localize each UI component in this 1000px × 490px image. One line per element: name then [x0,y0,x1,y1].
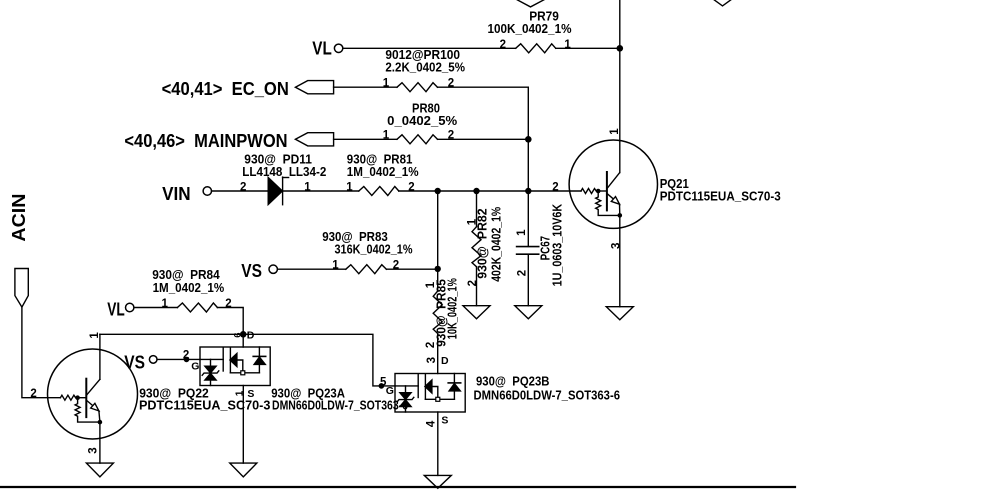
wire node to PC67 [527,191,529,246]
svg-text:1: 1 [564,39,571,51]
wire VIN terminal to diode [212,190,269,192]
svg-text:VL: VL [107,299,125,320]
wire PR83 to node [386,268,437,270]
wire PR80 to node [438,138,529,140]
junction node dots [75,45,623,424]
svg-text:2: 2 [552,181,558,193]
resistor PR81 [359,187,399,196]
net connector arrow EC_ON [295,81,333,94]
svg-text:1: 1 [332,260,339,272]
svg-text:4: 4 [425,420,437,427]
svg-text:402K_0402_1%: 402K_0402_1% [489,206,504,281]
terminal VIN [203,187,211,195]
wire PQ21 emitter to ground [619,215,621,306]
sheet border line [0,486,795,488]
svg-text:<40,46> MAINPWON: <40,46> MAINPWON [124,130,287,151]
wire PR79 to node [556,47,620,49]
resistor PR80 [397,135,438,144]
connector ACIN [15,269,28,308]
pin dot PQ23A gate [184,357,190,363]
ground PC67 [515,306,542,319]
svg-text:1: 1 [304,181,311,193]
terminal VS bottom [149,356,157,364]
svg-text:VL: VL [312,37,332,58]
svg-text:D: D [247,330,255,342]
power symbol top-right (cut off diamond) [713,0,732,6]
svg-text:1: 1 [383,78,390,90]
svg-text:DMN66D0LDW-7_SOT363-6: DMN66D0LDW-7_SOT363-6 [272,397,408,412]
wire PR82 to ground [476,267,478,306]
svg-text:2: 2 [240,181,246,193]
mosfet PQ23B [395,374,465,413]
mosfet PQ23A [200,347,270,386]
svg-text:10K_0402_1%: 10K_0402_1% [444,278,459,339]
svg-text:6: 6 [232,332,243,337]
wire diode to PR81 [283,190,359,192]
net connector arrow MAINPWON [295,133,333,146]
svg-text:1U_0603_10V6K: 1U_0603_10V6K [550,203,565,286]
svg-text:3: 3 [610,243,622,249]
node VL/PQ23A drain [240,331,247,338]
svg-text:S: S [441,414,448,426]
pin dot PQ23B gate [379,383,385,389]
node VIN/PR85 [435,188,441,194]
wire VL to PR79 [343,47,516,49]
svg-text:2: 2 [448,78,454,90]
svg-text:2: 2 [183,349,189,361]
node VIN/PR82 [473,188,479,194]
svg-text:DMN66D0LDW-7_SOT363-6: DMN66D0LDW-7_SOT363-6 [474,387,621,402]
svg-text:<40,41> EC_ON: <40,41> EC_ON [162,78,289,99]
svg-text:S: S [247,388,254,400]
svg-text:2: 2 [467,280,479,286]
svg-text:1: 1 [235,390,246,396]
svg-text:G: G [386,385,394,397]
svg-text:316K_0402_1%: 316K_0402_1% [335,242,413,257]
terminal circles [126,44,343,363]
wire VL terminal to PR84 [134,307,178,309]
svg-text:2: 2 [30,388,36,400]
wire VS terminal to PR83 [277,268,345,270]
ground PQ22 [86,463,113,477]
wire PQ23B source to ground [437,412,439,475]
svg-text:1: 1 [346,181,353,193]
terminal VS top [269,265,277,273]
wire node to PR82 [476,191,478,227]
resistor PR85 [433,291,442,334]
resistor PR100 [397,83,438,92]
transistor PQ22 [48,349,138,439]
svg-text:2: 2 [225,298,231,310]
svg-text:2: 2 [408,181,414,193]
wire PQ22 emitter to ground [99,422,101,463]
wire VS terminal to PQ23A gate [157,358,200,360]
wire PC67 to ground [527,254,529,306]
node PQ21 base [596,189,601,194]
resistor PR82 [472,227,481,267]
svg-text:VS: VS [241,260,262,281]
wire PR100 to corner [438,87,529,191]
svg-text:ACIN: ACIN [8,194,29,242]
wire PR84 to PQ23A drain [217,308,243,348]
node EC_ON/MAINPWON [525,136,532,143]
ground PQ23B [424,475,451,488]
terminal VL top [334,44,342,52]
transistor PQ21 [569,140,657,228]
wire EC_ON to PR100 [334,86,397,88]
svg-text:2: 2 [393,260,399,272]
svg-text:3: 3 [88,447,100,453]
resistor PR83 [346,265,387,274]
node VIN/PC67 [525,188,531,194]
svg-text:930@ PR82: 930@ PR82 [475,208,490,278]
svg-text:VIN: VIN [162,183,191,204]
svg-text:2: 2 [500,39,506,51]
wire PQ22 collector up [99,334,101,379]
node VS/PR85 [435,266,441,272]
svg-text:930@ PQ23B: 930@ PQ23B [476,373,550,388]
svg-text:2: 2 [448,130,454,142]
node PQ22 base [75,395,80,400]
wire node to PR85 [437,191,439,291]
svg-text:D: D [441,355,449,367]
resistor PR84 [177,303,217,312]
wire VIN net to PQ21 base [399,190,581,192]
svg-text:1M_0402_1%: 1M_0402_1% [347,164,419,179]
capacitor PC67 [517,247,539,255]
node PQ21 emitter [618,213,623,218]
svg-text:PDTC115EUA_SC70-3: PDTC115EUA_SC70-3 [660,188,781,203]
svg-text:3: 3 [426,357,438,363]
svg-text:VS: VS [124,351,145,372]
terminal VL bottom [126,303,134,311]
node PQ22 emitter [98,420,103,425]
svg-text:100K_0402_1%: 100K_0402_1% [488,21,572,36]
svg-text:1: 1 [609,128,621,135]
wire vertical collector net of PQ21 [619,0,621,173]
svg-text:1: 1 [383,130,390,142]
svg-text:LL4148_LL34-2: LL4148_LL34-2 [242,164,326,179]
wire MAINPWON to PR80 [334,138,397,140]
svg-text:2: 2 [517,270,529,276]
svg-text:G: G [191,360,199,372]
svg-text:1: 1 [162,298,169,310]
ground PQ23A [230,463,257,477]
svg-text:1M_0402_1%: 1M_0402_1% [153,280,225,295]
wire PR85 to PQ23B drain [437,334,439,374]
wire PQ23A source to ground [242,386,244,464]
node PR79/collector [617,45,624,52]
ground PQ21 [606,307,633,320]
svg-text:1: 1 [89,332,101,339]
diode PD11 [268,177,288,205]
power symbol top-left (cut off diamond) [516,0,546,7]
ground PR82 [463,306,490,319]
svg-text:1: 1 [516,229,528,236]
svg-text:0_0402_5%: 0_0402_5% [387,113,457,128]
svg-text:2.2K_0402_5%: 2.2K_0402_5% [385,59,465,74]
resistor PR79 [516,44,556,53]
wire PQ22 collector to PQ23B gate [100,334,395,386]
wire ACIN to PQ22 base [22,307,61,398]
